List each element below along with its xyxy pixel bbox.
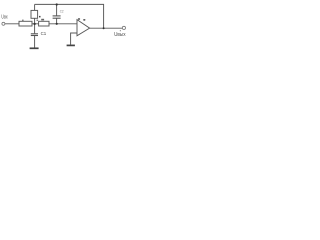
wire: C1 upper lead from node A bbox=[34, 24, 36, 34]
dot right of R3 bbox=[39, 16, 41, 18]
wire: main input line from Uin terminal to op-amp inverting input bbox=[5, 23, 77, 25]
node junction dot (C2 bottom / inverting input line) bbox=[56, 23, 58, 25]
resistor R2 label mark bbox=[41, 19, 44, 21]
capacitor C1 plates bbox=[31, 33, 38, 35]
wire: C2 lower lead bbox=[56, 18, 58, 23]
ground (below op-amp + input) bbox=[67, 44, 75, 46]
output terminal bbox=[122, 26, 125, 29]
wire: C2 upper lead bbox=[56, 4, 58, 15]
svg-text:Uвых: Uвых bbox=[114, 32, 126, 38]
resistor R1 bbox=[19, 21, 32, 26]
wire: R3 vertical branch from node A up to top rail bbox=[34, 4, 36, 23]
node junction dot (C2 top / feedback rail) bbox=[56, 3, 58, 5]
input terminal bbox=[2, 22, 5, 25]
svg-text:C1: C1 bbox=[41, 31, 47, 36]
op-amp infinity gain mark bbox=[78, 18, 80, 20]
node A junction dot bbox=[33, 23, 35, 25]
resistor R2 bbox=[39, 21, 49, 26]
background bbox=[0, 0, 128, 54]
resistor R3 (vertical, feedback) bbox=[31, 10, 38, 18]
svg-text:C2: C2 bbox=[60, 10, 64, 14]
wire: feedback top rail bbox=[35, 4, 104, 28]
small mark left of R2 label bbox=[37, 20, 39, 21]
svg-text:Uвх: Uвх bbox=[1, 14, 7, 20]
wire: non-inverting input to ground bbox=[71, 33, 77, 45]
op-amp U1 bbox=[77, 20, 90, 36]
capacitor C2 plates (feedback cap) bbox=[53, 15, 61, 17]
wire: C1 lower lead to ground bbox=[34, 36, 36, 48]
speck above output label bbox=[120, 30, 121, 31]
resistor R1 label mark bbox=[22, 20, 23, 22]
node junction dot (feedback / output) bbox=[103, 27, 105, 29]
wire: output line from op-amp apex to Uout terminal bbox=[90, 27, 123, 29]
ground (below C1) bbox=[30, 47, 39, 49]
